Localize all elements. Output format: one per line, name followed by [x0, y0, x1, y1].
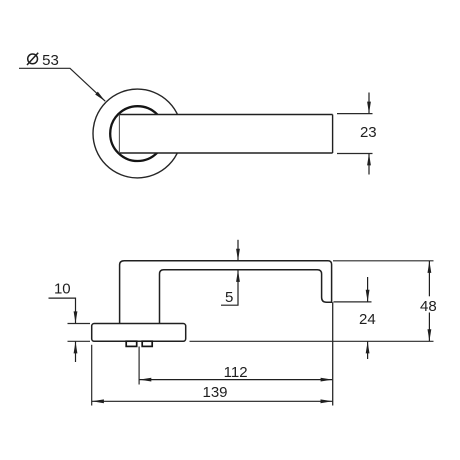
dimension 24 upper arrow [367, 277, 369, 302]
rose outer circle (top view) [93, 89, 182, 178]
dimension Ø53 leader with arrow [19, 68, 105, 101]
dimension 139 line with arrows [92, 400, 332, 402]
label 53 [42, 52, 59, 69]
svg-text:112: 112 [224, 364, 248, 381]
dimension 10 extension line at base top [68, 323, 91, 325]
label 48 [420, 298, 437, 315]
rose base plate (bottom view) [92, 324, 186, 342]
lever bar (top view) [119, 115, 332, 154]
svg-text:5: 5 [225, 289, 233, 306]
label 24 [359, 311, 376, 328]
rose inner circle (bold, top view) [110, 106, 165, 161]
label 10 [54, 280, 71, 297]
label 112 [224, 364, 248, 381]
dimension 112 line with arrows [139, 379, 332, 381]
dimension 24 extension line [334, 301, 372, 303]
dimension 48 line lower segment with down arrow [428, 313, 430, 342]
svg-text:10: 10 [54, 280, 71, 297]
svg-text:139: 139 [202, 384, 227, 401]
dimension 23 extension line top [337, 113, 373, 115]
diameter symbol Ø of label Ø53 [27, 53, 38, 65]
right extension line from lever end (shared by 112 and 139) [332, 302, 334, 405]
dimension 10 leader and upper arrow [49, 298, 76, 323]
dimension 23 extension line bottom [337, 153, 373, 155]
label 139 [202, 384, 227, 401]
label 23 [360, 124, 377, 141]
dimension 5 upper arrow [237, 240, 239, 261]
dimension 23 lower arrow [368, 154, 370, 175]
svg-text:48: 48 [420, 298, 437, 315]
svg-text:23: 23 [360, 124, 377, 141]
label 5 [225, 289, 233, 306]
dimension 5 lower arrow with landing line [221, 270, 238, 305]
dimension 10 lower arrow [75, 342, 77, 363]
dimension 112 left extension line [138, 347, 140, 385]
fixing tab left (under base plate) [126, 341, 137, 346]
lever side profile (bottom view) [120, 261, 332, 324]
extension line at base bottom level (shared by 24 and 48) [190, 340, 434, 342]
dimension 139 left extension line [91, 345, 93, 406]
svg-text:24: 24 [359, 311, 376, 328]
dimension 48 extension line top [333, 260, 434, 262]
dimension 23 upper arrow [368, 93, 370, 114]
dimension 48 line upper segment with up arrow [428, 261, 430, 296]
fixing tab right (under base plate) [142, 341, 152, 346]
dimension 10 extension line at base bottom [68, 340, 91, 342]
dimension 24 lower arrow [367, 342, 369, 360]
svg-text:53: 53 [42, 52, 59, 69]
